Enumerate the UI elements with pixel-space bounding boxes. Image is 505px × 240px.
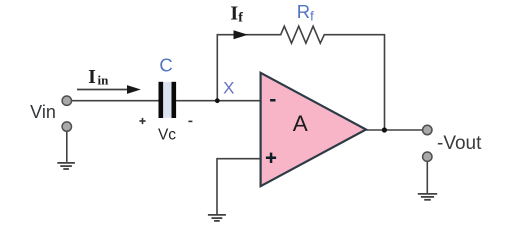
svg-text:C: C [159,54,172,75]
svg-text:A: A [293,111,308,136]
svg-text:-Vout: -Vout [437,133,482,154]
svg-text:Vin: Vin [30,102,56,122]
svg-text:X: X [223,78,234,97]
svg-text:Vc: Vc [158,127,176,144]
